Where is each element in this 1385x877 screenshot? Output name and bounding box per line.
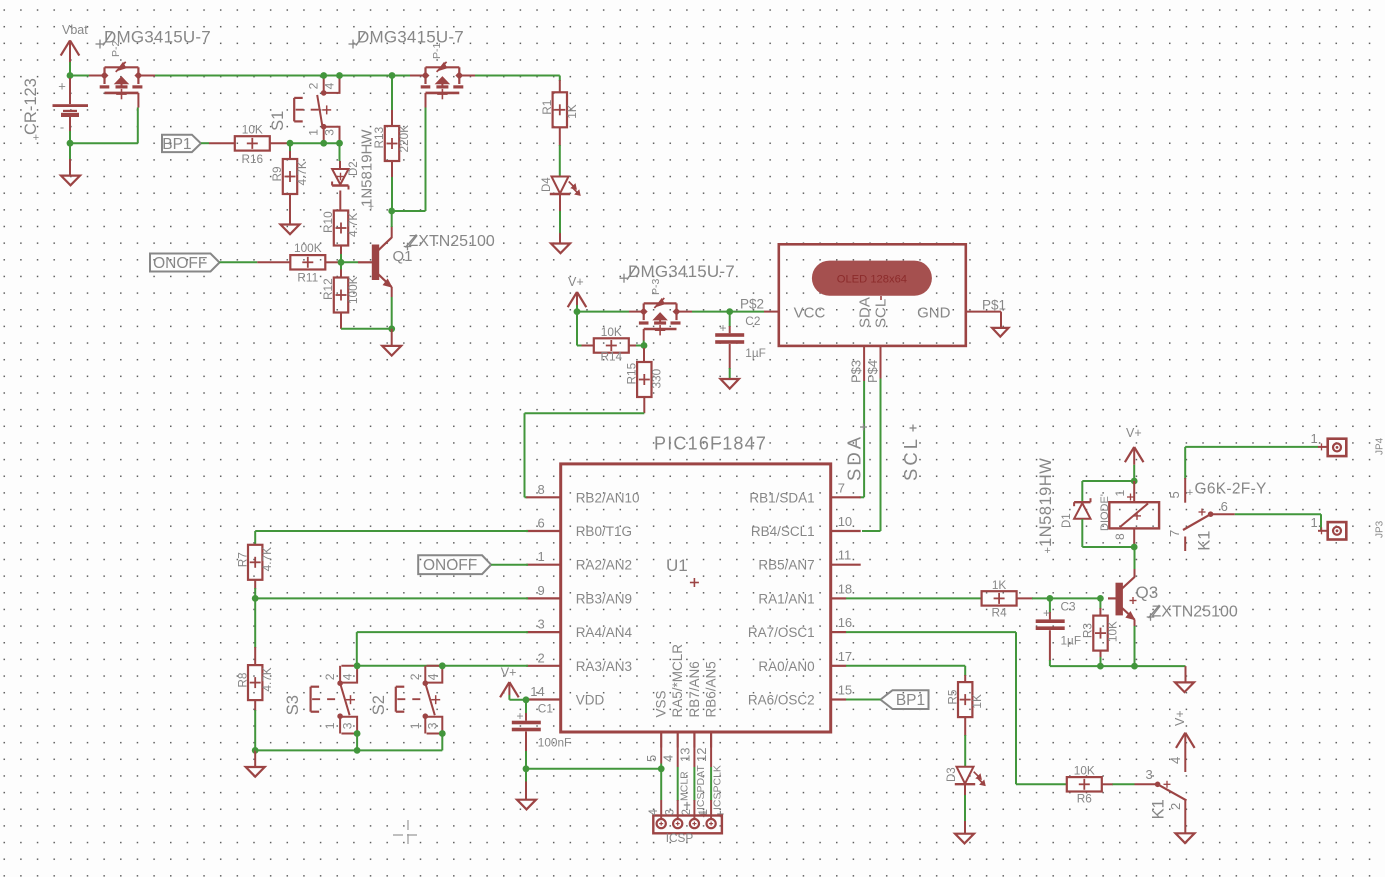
svg-text:+: +: [368, 202, 374, 213]
svg-text:7: 7: [838, 480, 845, 495]
wire: [255, 734, 442, 751]
svg-text:330: 330: [649, 368, 663, 388]
wire pin2: [357, 665, 528, 667]
resistor R4 1K: [982, 578, 1101, 620]
svg-text:3: 3: [340, 722, 354, 729]
wire: [643, 341, 645, 346]
wire: [391, 211, 393, 227]
wire: [201, 142, 235, 144]
wire: [69, 143, 71, 159]
battery BT1 CR-123: [22, 78, 88, 144]
node Vbat junction: [67, 72, 74, 79]
svg-text:RB5/AN7: RB5/AN7: [758, 558, 814, 573]
svg-text:RA7/OSC1: RA7/OSC1: [748, 625, 815, 640]
svg-text:RB3/AN9: RB3/AN9: [576, 591, 632, 606]
ground: [1175, 666, 1194, 692]
svg-text:R13: R13: [372, 126, 386, 148]
resistor R10 4.7K: [321, 211, 360, 263]
display U2 OLED 128x64: [779, 244, 966, 346]
svg-text:5: 5: [1167, 491, 1182, 498]
svg-text:3: 3: [537, 617, 544, 632]
power symbol V+: [500, 666, 519, 698]
svg-text:ZXTN25100: ZXTN25100: [409, 233, 495, 250]
svg-text:+: +: [1044, 545, 1050, 557]
svg-text:Vbat: Vbat: [62, 23, 88, 37]
IC U1 PIC16F1847: [526, 434, 861, 763]
svg-text:1K: 1K: [992, 578, 1007, 592]
wire: [69, 131, 71, 143]
wire pin3: [357, 632, 528, 666]
svg-text:G6K-2F-Y: G6K-2F-Y: [1195, 481, 1267, 498]
svg-text:P$4: P$4: [865, 360, 880, 383]
wire: [69, 62, 71, 76]
connector JP4: [1311, 431, 1385, 456]
wire: [526, 768, 661, 770]
node junction: [287, 140, 294, 147]
svg-text:RA4/AN4: RA4/AN4: [576, 625, 633, 640]
svg-text:4.7K: 4.7K: [260, 667, 274, 691]
wire pin6: [255, 531, 528, 545]
ground: [281, 225, 300, 235]
svg-text:JP4: JP4: [1375, 437, 1385, 455]
node junction: [1131, 663, 1138, 670]
svg-text:OLED 128x64: OLED 128x64: [837, 273, 907, 285]
svg-text:2: 2: [681, 809, 693, 815]
svg-text:8: 8: [537, 482, 544, 497]
wire: [339, 143, 341, 161]
power symbol V+: [568, 275, 587, 307]
svg-text:4.7K: 4.7K: [260, 547, 274, 571]
wire pin16: [846, 632, 1067, 784]
wire ICSPDAT: [693, 748, 695, 802]
resistor R5 1K: [945, 675, 984, 767]
svg-text:15: 15: [838, 683, 852, 698]
svg-text:10K: 10K: [1106, 621, 1120, 642]
wire: [1185, 446, 1318, 448]
svg-text:12: 12: [694, 748, 709, 762]
capacitor C3 1uF: [1036, 598, 1081, 666]
wire: [692, 311, 730, 313]
resistor R9 4.7K: [270, 143, 309, 215]
svg-text:11: 11: [838, 548, 852, 563]
wire: [1050, 665, 1186, 667]
capacitor C1 100nF: [512, 700, 571, 769]
svg-text:10K: 10K: [242, 123, 263, 137]
wire: [576, 305, 578, 312]
ground: [721, 379, 739, 389]
svg-text:R14: R14: [600, 350, 622, 364]
label SCL: [900, 425, 921, 482]
node junction: [336, 72, 343, 79]
svg-text:18: 18: [838, 581, 852, 596]
svg-text:RA1/AN1: RA1/AN1: [758, 591, 814, 606]
ground: [61, 159, 80, 185]
svg-text:1µF: 1µF: [745, 346, 766, 360]
svg-text:13: 13: [677, 748, 692, 762]
svg-text:R8: R8: [235, 672, 249, 688]
relay contact K1 pins 5/6/7: [1167, 478, 1235, 551]
transistor Q-P2 DMG3415U-7 (P-2): [89, 28, 211, 108]
svg-text:R3: R3: [1081, 623, 1095, 639]
wire: [70, 108, 138, 144]
svg-text:+: +: [1187, 487, 1193, 499]
wire: [391, 297, 393, 329]
pin P$3 SDA: [849, 346, 865, 383]
svg-text:Q1: Q1: [393, 248, 413, 265]
ground: [246, 750, 265, 776]
svg-text:RB1/SDA1: RB1/SDA1: [749, 490, 814, 505]
svg-text:1N5819HW: 1N5819HW: [1037, 458, 1055, 547]
wire: [525, 769, 527, 783]
transistor Q-P3 DMG3415U-7 (P-3): [620, 262, 735, 341]
svg-text:SCL: SCL: [873, 299, 890, 328]
resistor R16 10K: [235, 123, 290, 167]
svg-text:R5: R5: [945, 689, 959, 705]
svg-text:7: 7: [1167, 530, 1182, 537]
ground: [517, 782, 536, 810]
svg-text:4.7K: 4.7K: [295, 161, 309, 185]
svg-text:4.7K: 4.7K: [346, 213, 360, 237]
resistor R11 100K: [290, 241, 341, 285]
svg-text:4: 4: [661, 755, 676, 762]
svg-text:R7: R7: [235, 552, 249, 567]
label ONOFF: [418, 555, 491, 574]
diode D3 LED: [946, 767, 985, 786]
wire pin9: [255, 597, 528, 599]
node junction: [354, 730, 361, 737]
svg-text:P-2: P-2: [110, 41, 122, 58]
svg-text:DMG3415U-7: DMG3415U-7: [357, 28, 464, 47]
wire: [290, 142, 340, 144]
wire: [1134, 626, 1136, 666]
switch S3: [284, 666, 357, 734]
svg-text:DMG3415U-7: DMG3415U-7: [628, 262, 735, 281]
svg-text:2: 2: [307, 82, 321, 89]
node junction: [320, 72, 327, 79]
svg-text:R12: R12: [321, 278, 335, 300]
wire: [70, 75, 89, 77]
svg-text:1: 1: [323, 722, 337, 729]
svg-text:BP1: BP1: [162, 136, 191, 153]
svg-text:P$1: P$1: [982, 298, 1006, 313]
svg-text:MCLR: MCLR: [678, 771, 690, 801]
svg-text:R1: R1: [540, 100, 554, 115]
svg-text:RA0/AN0: RA0/AN0: [758, 659, 814, 674]
svg-text:S1: S1: [269, 111, 287, 131]
svg-text:CR-123: CR-123: [22, 78, 40, 135]
wire pin1: [491, 564, 528, 566]
node junction: [641, 342, 648, 349]
ground: [1176, 833, 1195, 843]
relay K1 coil G6K-2F-Y: [1109, 481, 1266, 548]
node junction: [252, 595, 259, 602]
svg-text:1: 1: [1311, 515, 1318, 530]
svg-text:ICSPCLK: ICSPCLK: [712, 765, 724, 810]
pin P$4 SCL: [865, 346, 881, 383]
svg-text:SCL: SCL: [900, 436, 921, 481]
wire pin15: [846, 699, 881, 701]
svg-text:1: 1: [537, 549, 544, 564]
ground: [992, 328, 1008, 337]
label ICSPDAT: [695, 765, 707, 818]
wire: [1133, 465, 1135, 481]
diode D1 1N5819HW: [1037, 458, 1111, 557]
label BP1: [162, 135, 201, 153]
svg-text:P-1: P-1: [431, 43, 443, 60]
switch S2: [370, 666, 442, 734]
svg-text:R16: R16: [241, 152, 263, 166]
svg-text:C3: C3: [1061, 600, 1077, 614]
svg-text:220K: 220K: [397, 125, 411, 153]
svg-text:100nF: 100nF: [538, 736, 571, 750]
svg-text:+: +: [58, 79, 66, 94]
node junction: [252, 747, 259, 754]
wire top rail: [155, 75, 410, 77]
svg-text:P-3: P-3: [650, 279, 662, 296]
power symbol Vbat: [61, 23, 89, 62]
svg-text:4: 4: [426, 673, 440, 680]
svg-text:ICSP: ICSP: [666, 831, 694, 845]
resistor R1 1K: [540, 80, 579, 177]
label MCLR: [678, 771, 690, 808]
svg-text:1: 1: [1311, 431, 1318, 446]
origin mark: [393, 820, 417, 844]
svg-text:S3: S3: [284, 695, 302, 715]
svg-text:1K: 1K: [565, 104, 579, 119]
svg-text:VSS: VSS: [654, 690, 669, 717]
svg-text:+: +: [1043, 606, 1050, 620]
transistor Q3 ZXTN25100: [1108, 569, 1238, 626]
svg-text:10: 10: [838, 514, 852, 529]
node junction: [354, 747, 361, 754]
svg-text:D3: D3: [946, 767, 958, 782]
svg-text:RA6/OSC2: RA6/OSC2: [748, 693, 815, 708]
wire: [509, 695, 526, 700]
svg-text:R11: R11: [297, 271, 318, 285]
svg-text:100K: 100K: [346, 276, 360, 304]
wire: [392, 108, 426, 212]
wire SCL: [862, 379, 881, 532]
svg-text:ZXTN25100: ZXTN25100: [1152, 603, 1238, 620]
wire: [1134, 547, 1136, 569]
node junction: [658, 765, 665, 772]
node junction: [523, 696, 530, 703]
wire VSS: [660, 748, 662, 801]
svg-text:6: 6: [1221, 499, 1228, 514]
svg-text:S2: S2: [370, 695, 388, 715]
wire: [525, 413, 645, 497]
wire ICSPCLK: [710, 748, 712, 802]
label BP1: [881, 690, 929, 709]
svg-text:1: 1: [408, 722, 422, 729]
resistor R8 4.7K: [235, 598, 274, 750]
connector JP3: [1311, 515, 1385, 540]
svg-text:+: +: [719, 321, 726, 335]
resistor R6 10K: [1067, 764, 1158, 806]
wire: [730, 311, 764, 313]
wire: [1235, 514, 1321, 531]
power symbol V+: [1125, 426, 1144, 465]
ground: [955, 821, 974, 843]
node battery-minus junction: [67, 140, 74, 147]
svg-text:ONOFF: ONOFF: [423, 557, 477, 574]
svg-text:2: 2: [323, 673, 337, 680]
svg-text:2: 2: [408, 673, 422, 680]
label ICSPCLK: [712, 765, 724, 817]
svg-text:2: 2: [537, 650, 544, 665]
svg-text:SDA: SDA: [857, 297, 874, 328]
svg-text:3: 3: [323, 129, 337, 136]
svg-text:VDD: VDD: [576, 693, 605, 708]
wire: [1082, 546, 1134, 548]
svg-text:17: 17: [838, 649, 852, 664]
wire pin14: [526, 699, 529, 701]
pin P$2 VCC: [740, 297, 779, 312]
svg-text:C2: C2: [745, 314, 760, 328]
svg-text:100K: 100K: [294, 241, 322, 255]
svg-text:-: -: [60, 120, 64, 135]
wire SDA: [860, 381, 865, 497]
svg-text:5: 5: [644, 755, 659, 762]
svg-text:RA5/*MCLR: RA5/*MCLR: [670, 644, 685, 718]
svg-text:6: 6: [537, 516, 544, 531]
svg-text:9: 9: [537, 583, 544, 598]
svg-text:BP1: BP1: [896, 692, 925, 709]
label SDA: [844, 424, 868, 482]
svg-text:8: 8: [1113, 533, 1127, 540]
svg-text:Q3: Q3: [1136, 583, 1159, 602]
svg-text:1: 1: [698, 809, 710, 815]
wire pin17: [846, 666, 965, 676]
svg-text:R4: R4: [992, 606, 1008, 620]
capacitor C2 1uF: [715, 312, 766, 379]
resistor R14 10K: [582, 325, 645, 364]
node junction: [388, 325, 395, 332]
svg-text:4: 4: [340, 673, 354, 680]
svg-text:2: 2: [1168, 803, 1183, 810]
svg-text:1K: 1K: [970, 694, 984, 709]
node junction: [1047, 595, 1054, 602]
svg-text:1µF: 1µF: [1061, 634, 1082, 648]
svg-text:R15: R15: [625, 362, 639, 384]
node junction: [439, 730, 446, 737]
svg-text:JP3: JP3: [1375, 520, 1385, 538]
wire: [577, 312, 583, 346]
svg-text:R6: R6: [1077, 792, 1093, 806]
node junction: [388, 208, 395, 215]
power symbol V+: [1173, 710, 1195, 772]
svg-text:V+: V+: [501, 666, 517, 680]
svg-text:U1: U1: [666, 556, 688, 575]
svg-text:V+: V+: [568, 275, 584, 289]
node junction: [336, 140, 343, 147]
svg-text:D4: D4: [541, 177, 553, 192]
svg-text:C1: C1: [538, 702, 553, 716]
transistor Q-P1 DMG3415U-7 (P-1): [349, 28, 476, 108]
node junction: [320, 140, 327, 147]
connector J1 ICSP: [648, 800, 722, 845]
node junction: [523, 765, 530, 772]
wire pin18: [846, 597, 982, 599]
svg-text:3: 3: [1146, 767, 1153, 782]
svg-text:1: 1: [1113, 490, 1127, 497]
node junction: [338, 259, 345, 266]
svg-text:RB0/T1G: RB0/T1G: [576, 524, 632, 539]
pin P$1 GND: [966, 298, 1006, 329]
svg-text:RB6/AN5: RB6/AN5: [704, 661, 719, 717]
node junction: [1131, 478, 1138, 485]
svg-text:10K: 10K: [1074, 764, 1095, 778]
svg-text:3: 3: [665, 809, 677, 815]
svg-text:R10: R10: [321, 211, 335, 233]
node junction: [726, 308, 733, 315]
svg-text:ICSPDAT: ICSPDAT: [695, 765, 707, 810]
wire: [475, 76, 560, 82]
svg-text:4: 4: [1168, 757, 1183, 764]
wire MCLR: [677, 748, 679, 802]
svg-text:ONOFF: ONOFF: [153, 255, 207, 272]
svg-text:RA2/AN2: RA2/AN2: [576, 558, 632, 573]
node junction: [1097, 663, 1104, 670]
svg-text:PIC16F1847: PIC16F1847: [654, 434, 767, 454]
node junction: [574, 308, 581, 315]
svg-text:1: 1: [307, 129, 321, 136]
wire: [1082, 481, 1134, 502]
svg-text:SDA: SDA: [844, 434, 865, 481]
node junction: [389, 72, 396, 79]
resistor R12 100K: [321, 262, 360, 329]
node junction: [1131, 544, 1138, 551]
node junction: [1097, 595, 1104, 602]
svg-text:RA3/AN3: RA3/AN3: [576, 659, 632, 674]
diode D4 LED: [541, 177, 580, 196]
wire: [341, 328, 392, 330]
svg-text:VCC: VCC: [794, 305, 826, 322]
resistor R15 330: [625, 348, 664, 413]
svg-text:+: +: [516, 709, 523, 723]
svg-text:D1: D1: [1061, 513, 1073, 528]
svg-text:RB4/SCL1: RB4/SCL1: [751, 524, 815, 539]
svg-text:K1: K1: [1150, 799, 1168, 819]
svg-text:14: 14: [530, 684, 544, 699]
svg-text:10K: 10K: [601, 325, 622, 339]
svg-text:V+: V+: [1173, 710, 1187, 726]
wire: [577, 311, 629, 313]
wire: [220, 261, 291, 263]
svg-text:P$3: P$3: [849, 360, 864, 383]
switch S1: [269, 76, 340, 144]
ground: [551, 233, 570, 253]
node junction: [354, 662, 361, 669]
svg-text:RB7/AN6: RB7/AN6: [687, 661, 702, 717]
svg-text:RB2/AN10: RB2/AN10: [576, 490, 640, 505]
svg-text:GND: GND: [917, 305, 951, 322]
wire: [964, 784, 966, 822]
diode D2 1N5819HW: [332, 129, 375, 213]
svg-text:V+: V+: [1126, 426, 1142, 440]
svg-text:+: +: [33, 132, 39, 144]
ground: [382, 329, 401, 356]
svg-text:4: 4: [648, 809, 660, 816]
wire: [1184, 447, 1186, 479]
wire: [289, 215, 291, 225]
svg-text:K1: K1: [1196, 531, 1214, 551]
resistor R3 10K: [1081, 598, 1120, 666]
resistor R7 4.7K: [235, 545, 274, 599]
wire: [559, 194, 561, 234]
svg-text:P$2: P$2: [740, 297, 764, 312]
transistor Q1 ZXTN25100: [358, 226, 495, 297]
